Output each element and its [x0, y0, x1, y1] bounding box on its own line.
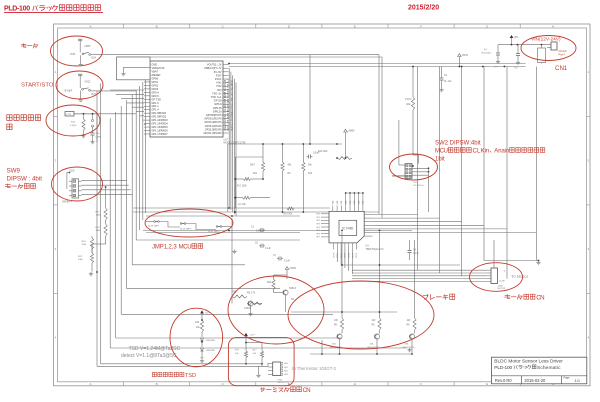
svg-text:CC20: CC20 — [66, 114, 72, 116]
svg-text:B: B — [156, 382, 158, 386]
svg-text:10kT=3.77@: 10kT=3.77@ — [278, 382, 290, 384]
svg-text:MCU: MCU — [435, 149, 448, 155]
svg-text:DSPBU-4: DSPBU-4 — [62, 202, 73, 204]
svg-text:R.G 220k: R.G 220k — [237, 185, 248, 187]
svg-text:COIN: COIN — [499, 281, 505, 283]
svg-text:GND: GND — [152, 63, 158, 67]
svg-text:START/STO: START/STO — [21, 82, 54, 88]
svg-text:P10.1: P10.1 — [215, 77, 222, 81]
svg-text:GP01: GP01 — [152, 80, 159, 84]
svg-text:GP6: GP6 — [316, 233, 320, 235]
svg-text:2015/2/20: 2015/2/20 — [408, 5, 439, 12]
svg-text:VDDA/3.3V: VDDA/3.3V — [152, 66, 165, 70]
svg-text:130uF: 130uF — [313, 153, 320, 155]
svg-text:GP2: GP2 — [316, 220, 320, 222]
svg-text:GP0: GP0 — [316, 214, 320, 216]
svg-text:GP1.1: GP1.1 — [152, 104, 160, 108]
svg-text:CN1: CN1 — [555, 65, 568, 72]
svg-text:SL45 JMP2: SL45 JMP2 — [180, 229, 192, 231]
svg-text:SY.2: SY.2 — [413, 182, 418, 184]
svg-text:HX1: HX1 — [217, 81, 223, 85]
svg-text:GP7: GP7 — [316, 237, 320, 239]
svg-text:GPO6.1(R5.P6: GPO6.1(R5.P6 — [204, 117, 222, 121]
svg-text:GP1.16/RXD6: GP1.16/RXD6 — [152, 129, 169, 133]
svg-text:E: E — [354, 382, 356, 386]
svg-text:MOTOR: MOTOR — [498, 288, 506, 290]
svg-text:GP3: GP3 — [316, 224, 320, 226]
svg-text:GP6.9: GP6.9 — [214, 102, 222, 106]
svg-text:PLD-100: PLD-100 — [494, 365, 512, 371]
svg-text:R16: R16 — [195, 322, 200, 324]
svg-text:1N5819B: 1N5819B — [206, 350, 216, 352]
svg-text:R.B 220k: R.B 220k — [318, 151, 328, 153]
svg-text:/ET/@P: /ET/@P — [64, 91, 73, 93]
svg-text:GP1.8/RXD1: GP1.8/RXD1 — [152, 111, 167, 115]
svg-text:R24: R24 — [267, 282, 272, 284]
svg-text:VR33: VR33 — [462, 54, 469, 57]
svg-text:UM08: UM08 — [348, 130, 355, 133]
svg-text:UP1: UP1 — [514, 37, 519, 39]
svg-text:to Thermistor 103GT-2: to Thermistor 103GT-2 — [292, 366, 337, 371]
svg-text:GP23.1(R5.R0: GP23.1(R5.R0 — [205, 124, 222, 128]
svg-text:UM05: UM05 — [84, 46, 91, 48]
svg-text:HU0: HU0 — [284, 363, 288, 365]
svg-text:Rev.0.R0: Rev.0.R0 — [495, 378, 512, 383]
svg-text:GP02: GP02 — [152, 83, 159, 87]
svg-text:GP4: GP4 — [316, 227, 320, 229]
svg-text:DIPSW : 4bit: DIPSW : 4bit — [7, 175, 43, 182]
svg-text:VDD: VDD — [70, 171, 75, 173]
svg-text:3V3: 3V3 — [217, 88, 222, 92]
svg-text:1bit: 1bit — [435, 157, 445, 163]
svg-text:GPO6/(P5.P6: GPO6/(P5.P6 — [206, 113, 222, 117]
svg-text:GP TXD: GP TXD — [152, 97, 162, 101]
svg-text:Pwr?: Pwr? — [559, 53, 566, 57]
svg-text:Page: Page — [564, 376, 571, 380]
svg-text:VOUT(3...2V: VOUT(3...2V — [207, 63, 222, 67]
svg-text:BU4: BU4 — [92, 58, 97, 60]
svg-text:GP1.15/RXD5: GP1.15/RXD5 — [152, 125, 169, 129]
svg-text:D/P1: D/P1 — [70, 54, 76, 56]
svg-text:V/S22: V/S22 — [84, 81, 91, 83]
svg-text:GPO9.4(R5.P6: GPO9.4(R5.P6 — [204, 120, 222, 124]
svg-text:GP00: GP00 — [152, 76, 159, 80]
svg-text:E: E — [354, 24, 356, 28]
svg-text:GP23.0(R5.R0: GP23.0(R5.R0 — [205, 127, 222, 131]
svg-text:GP1.14/RXD4: GP1.14/RXD4 — [152, 122, 169, 126]
svg-text:R13: R13 — [308, 173, 313, 175]
svg-text:0.1uF: 0.1uF — [265, 248, 271, 250]
svg-text:GP1.17/RXD7: GP1.17/RXD7 — [152, 132, 169, 136]
svg-text:SW9: SW9 — [7, 168, 21, 175]
svg-text:CN: CN — [303, 388, 311, 394]
svg-text:P.CC2: P.CC2 — [405, 99, 412, 101]
svg-text:CLKin: CLKin — [473, 149, 490, 155]
svg-text:detect V=1.1@8Ta3@5C: detect V=1.1@8Ta3@5C — [121, 353, 177, 359]
svg-text:GP1.4: GP1.4 — [152, 108, 160, 112]
svg-text:1N5819B: 1N5819B — [206, 340, 216, 342]
svg-text:GP1: GP1 — [316, 217, 320, 219]
svg-text:GP0.4: GP0.4 — [152, 90, 160, 94]
svg-text:C3an#3:3V2:2V1:1V0:GP23/P5.P6/: C3an#3:3V2:2V1:1V0:GP23/P5.P6/R5.R0 GP9.… — [225, 79, 227, 131]
svg-text:GP1.0: GP1.0 — [152, 101, 160, 105]
svg-text:Schematic: Schematic — [537, 365, 561, 371]
svg-text:DC PSU-4: DC PSU-4 — [413, 185, 424, 187]
svg-text:VBAT: VBAT — [152, 70, 159, 74]
svg-text:3.6@k: 3.6@k — [70, 125, 77, 127]
svg-text:GP9.25: GP9.25 — [213, 106, 222, 110]
svg-text:TXD .6+1: TXD .6+1 — [211, 95, 222, 99]
svg-text:GP9.26: GP9.26 — [213, 109, 222, 113]
svg-text:51B13: 51B13 — [289, 287, 297, 290]
svg-text:BLDC Motor Sensor Less Driver: BLDC Motor Sensor Less Driver — [494, 358, 563, 364]
svg-text:OUT0: OUT0 — [333, 253, 335, 258]
svg-text:OUT6: OUT6 — [356, 253, 358, 258]
svg-text:UCL(20U): UCL(20U) — [481, 53, 491, 55]
svg-text:TB6479QGLF7G: TB6479QGLF7G — [366, 248, 384, 251]
svg-text:SL45 JMP3: SL45 JMP3 — [208, 231, 220, 233]
svg-text:PLD-100: PLD-100 — [4, 6, 30, 13]
svg-text:GP0.5: GP0.5 — [152, 94, 160, 98]
svg-text:50k?: 50k? — [250, 165, 256, 167]
svg-text:+5V?: +5V? — [250, 335, 256, 337]
svg-text:B: B — [156, 24, 158, 28]
svg-text:UMP4: UMP4 — [96, 137, 103, 139]
svg-text:vvv 10k: vvv 10k — [238, 204, 247, 206]
svg-text:1/1: 1/1 — [575, 378, 581, 383]
svg-text:GP03: GP03 — [152, 87, 159, 91]
svg-text:H: H — [552, 24, 554, 28]
svg-text:UM09: UM09 — [290, 267, 297, 270]
svg-text:HU1: HU1 — [284, 367, 288, 369]
svg-text:/RESET: /RESET — [152, 73, 162, 77]
svg-text:To Motor: To Motor — [511, 274, 529, 279]
svg-text:2015-02-20: 2015-02-20 — [524, 378, 546, 383]
svg-text:JMP1,2,3: JMP1,2,3 — [152, 245, 177, 251]
svg-text:HU3: HU3 — [284, 374, 288, 376]
svg-text:TSD: TSD — [185, 373, 196, 379]
svg-text:SL45 JMP1: SL45 JMP1 — [148, 226, 160, 228]
svg-text:TXD .6+: TXD .6+ — [212, 91, 222, 95]
svg-text:IC FMD: IC FMD — [342, 227, 354, 231]
svg-text:MCU: MCU — [179, 245, 192, 251]
svg-text:GP O8: GP O8 — [214, 99, 222, 103]
svg-text:SW2 DIPSW:4bit: SW2 DIPSW:4bit — [435, 141, 481, 147]
svg-text:SL.1uF: SL.1uF — [444, 81, 452, 83]
svg-text:0.1uF: 0.1uF — [413, 253, 419, 255]
svg-text:F: F — [420, 382, 422, 386]
svg-text:F: F — [420, 24, 422, 28]
svg-text:GP1.10/RXD3: GP1.10/RXD3 — [152, 118, 169, 122]
svg-text:HX2: HX2 — [217, 84, 223, 88]
svg-text:RN1202(F5): RN1202(F5) — [403, 347, 415, 349]
svg-text:A: A — [89, 24, 91, 28]
svg-text:A: A — [89, 382, 91, 386]
svg-text:R14 50k: R14 50k — [284, 213, 293, 215]
svg-text:Anain: Anain — [494, 149, 509, 155]
svg-text:R5 2.7k: R5 2.7k — [247, 292, 256, 295]
svg-text:CN: CN — [536, 294, 544, 301]
svg-text:GP5: GP5 — [316, 230, 320, 232]
svg-text:GP(O1.0(P1/R0: GP(O1.0(P1/R0 — [204, 131, 223, 135]
svg-text:USB(0.0)(*1.7V: USB(0.0)(*1.7V — [204, 66, 222, 70]
svg-text:HU2: HU2 — [284, 371, 288, 373]
svg-text:Y: Y — [504, 269, 506, 273]
svg-text:3V~5V: 3V~5V — [214, 70, 222, 74]
svg-text:P10*: P10* — [216, 73, 222, 77]
svg-text:0.1uF: 0.1uF — [284, 261, 290, 263]
svg-text:GP1.9/RXD2: GP1.9/RXD2 — [152, 115, 167, 119]
